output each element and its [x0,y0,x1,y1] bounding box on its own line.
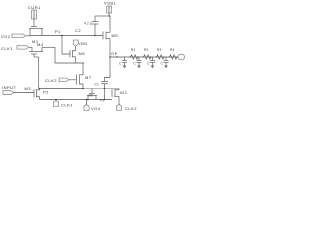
source VSB1 [107,6,112,13]
wire CUR1 to M1 gate [33,19,35,26]
wire net P2 [40,88,85,90]
svg-text:R4: R4 [170,48,175,52]
wire top rail [95,15,110,17]
svg-text:C: C [161,62,164,66]
svg-text:VG2: VG2 [1,34,11,39]
svg-text:M7: M7 [85,75,92,80]
ground [137,66,141,69]
current source CUR1 [32,10,37,19]
transistor M6 [69,50,71,58]
svg-text:M4: M4 [37,42,44,47]
svg-text:C2: C2 [75,28,81,33]
transistor M1 [31,26,37,28]
svg-text:VSB1: VSB1 [104,1,117,6]
svg-text:CLK2: CLK2 [45,78,57,83]
wire M5 drain up [109,16,111,32]
svg-text:R3: R3 [157,48,162,52]
svg-text:CUR1: CUR1 [28,5,41,10]
svg-text:C: C [134,62,137,66]
svg-text:CLK2: CLK2 [125,106,137,111]
svg-text:OP: OP [111,51,118,56]
junction C1 column [104,88,106,90]
junction C2 bottom [94,35,96,37]
junction M7 source [82,88,84,90]
ground [164,66,168,69]
junction M8 [87,99,89,101]
wire INPUT to M3 gate [14,92,34,94]
port CLK1 bottom [55,100,57,102]
junction M3 drain / M4 gate [39,88,41,90]
svg-text:C: C [147,62,150,66]
ground [151,66,155,69]
node P1 rail [30,35,103,37]
junction P1 [61,35,63,37]
svg-text:VGB1: VGB1 [79,42,88,46]
wire P1 to M6 gate [62,36,70,55]
svg-text:VG4: VG4 [91,106,101,111]
svg-text:P1: P1 [55,29,61,34]
wire M4 gate down to input net [33,54,35,57]
wire M7 drain up to node [80,63,84,75]
svg-text:CLK1: CLK1 [61,103,73,108]
svg-text:CLK1: CLK1 [1,46,13,51]
junction ladder start [116,56,118,58]
wire M10 drain up [118,89,120,90]
svg-text:M10: M10 [120,91,127,95]
junction CLK1 stub [55,99,57,101]
transistor M10 [111,89,113,97]
svg-text:M5: M5 [112,33,119,38]
wire M7 source down to P2 [80,84,84,89]
transistor M5 [102,32,104,40]
svg-text:INPUT: INPUT [2,85,17,90]
transistor M7 [76,75,78,85]
port VGB1 [73,40,78,46]
wire M6 source down [75,57,77,63]
wire VSB1 down [108,13,110,16]
svg-text:M3: M3 [25,86,32,91]
wire CLK1 to M4 [29,46,32,48]
svg-text:C: C [119,62,122,66]
svg-text:P3: P3 [100,99,104,103]
ground [123,66,127,69]
port CLK2 bottom [117,105,122,111]
wire M10 source down [118,96,120,105]
bottom rail P3 [40,99,113,101]
svg-text:R1: R1 [131,48,136,52]
wire M5 source down [109,39,111,78]
wire VG2 to M1 source [26,35,30,37]
wire M4 drain drop [55,47,84,63]
svg-text:C1: C1 [95,83,100,87]
svg-text:R2: R2 [144,48,149,52]
port VG4 [86,100,88,105]
junction OP [109,56,111,58]
svg-text:P2: P2 [43,90,49,95]
svg-text:M6: M6 [79,51,86,56]
wire M4 drain right [42,46,55,48]
wire CLK2 to M7 gate [69,79,77,81]
svg-text:4.2 p: 4.2 p [84,22,92,26]
output port [178,54,185,60]
junction C1 bottom [104,99,106,101]
ladder rail [110,56,179,58]
wire VGB1 to M6 drain [75,46,77,51]
